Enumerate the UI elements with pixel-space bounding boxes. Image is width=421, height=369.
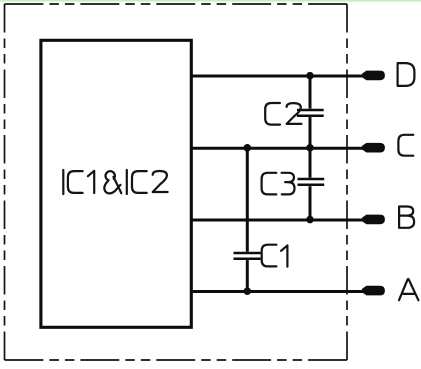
capacitor C1 plates [234, 253, 261, 259]
terminal D connector [362, 71, 385, 81]
terminal C connector [362, 143, 385, 153]
terminal B label [399, 207, 414, 228]
wire C (horizontal) [190, 147, 364, 150]
wire B (horizontal) [190, 219, 364, 222]
IC block label IC1&IC2 [63, 170, 167, 194]
dashed enclosure border [5, 4, 348, 360]
capacitor C3 plates [298, 179, 325, 185]
junction node on wire A at C1 branch [244, 287, 252, 295]
capacitor C2 label [265, 103, 301, 125]
capacitor C3 label [262, 173, 295, 195]
junction node on wire C at C1 branch [244, 144, 252, 152]
terminal A connector [362, 286, 385, 296]
junction node on wire D at branch [306, 72, 314, 80]
capacitor C2 plates [297, 110, 324, 116]
capacitor C1 label [262, 245, 288, 267]
junction node on wire C at C2/C3 branch [306, 144, 314, 152]
wire A (horizontal) [190, 290, 364, 293]
terminal D label [398, 63, 415, 86]
wire D (horizontal) [190, 75, 364, 78]
terminal C label [398, 135, 413, 156]
IC block IC1&IC2 box [41, 40, 191, 327]
wire (vertical branch C-to-A through C1) [246, 148, 249, 291]
terminal A label [399, 279, 418, 300]
wire (vertical branch D-to-B through C2,C3) [309, 76, 312, 220]
junction node on wire B at branch [306, 216, 314, 224]
terminal B connector [362, 215, 385, 225]
